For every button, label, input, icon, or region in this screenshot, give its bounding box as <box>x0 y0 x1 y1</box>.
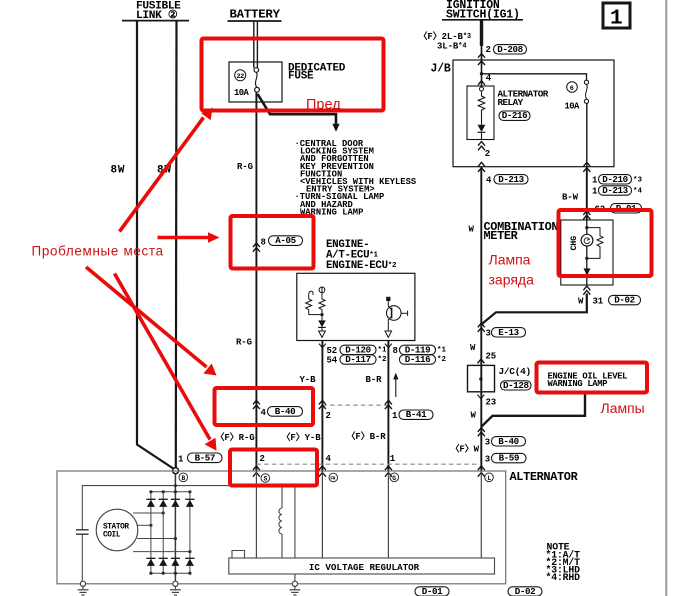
bridge top rail <box>149 490 191 493</box>
svg-text:WARNING LAMP: WARNING LAMP <box>548 379 608 389</box>
svg-text:10A: 10A <box>234 88 250 98</box>
svg-text:заряда: заряда <box>489 272 535 288</box>
dashed connector line lower row <box>256 463 481 465</box>
svg-text:STATOR: STATOR <box>103 524 129 532</box>
wire ignition stub <box>480 20 483 60</box>
diode D8 <box>185 558 194 566</box>
node B-57 junction <box>173 468 179 474</box>
svg-text:B-40: B-40 <box>498 436 518 447</box>
label alternator relay <box>498 89 549 122</box>
label 8 (A-05) <box>261 235 303 247</box>
svg-text:Проблемные места: Проблемные места <box>32 244 164 259</box>
svg-text:31: 31 <box>593 297 604 307</box>
terminal FR <box>329 473 338 482</box>
svg-text:*3: *3 <box>633 177 643 185</box>
J/B box <box>453 60 614 167</box>
connector chevrons B-R pin1 <box>385 400 392 409</box>
wire L internal <box>480 471 482 558</box>
red annotation box CHG <box>559 210 652 276</box>
svg-text:COIL: COIL <box>103 531 121 539</box>
label 4 (D-213) <box>486 174 528 186</box>
svg-text:*2: *2 <box>378 356 388 364</box>
svg-text:*1: *1 <box>378 347 388 355</box>
red annotation box B-40 <box>215 388 314 425</box>
svg-text:G: G <box>392 475 396 482</box>
fusible link label <box>122 1 189 23</box>
label dedicated fuse <box>288 63 346 83</box>
wire fuse6 down <box>586 103 588 166</box>
connector chevron J/C in <box>478 359 485 363</box>
stator coil circle <box>96 509 138 551</box>
alternator relay box <box>467 86 494 140</box>
wire B main vertical <box>174 474 176 582</box>
svg-text:10A: 10A <box>565 102 581 112</box>
svg-text:4: 4 <box>261 408 267 418</box>
ignition switch label <box>442 0 523 22</box>
red annotation box fuse <box>202 39 384 111</box>
svg-text:Лампы: Лампы <box>601 400 645 416</box>
wire fusible link right (8W) <box>175 21 178 468</box>
connector chevrons meter in <box>583 211 590 220</box>
svg-text:〈F〉B-R: 〈F〉B-R <box>347 431 387 442</box>
red arrow to pin2 <box>115 274 217 451</box>
svg-text:Пред: Пред <box>306 97 341 113</box>
svg-text:〈F〉Y-B: 〈F〉Y-B <box>282 432 322 443</box>
wire inside meter <box>586 220 588 268</box>
label (D-01) bottom <box>415 586 449 596</box>
svg-text:3L-B*4: 3L-B*4 <box>437 42 466 52</box>
svg-text:1: 1 <box>610 8 623 31</box>
svg-text:B-59: B-59 <box>499 453 519 464</box>
fuse 6 element <box>584 80 588 103</box>
relay diode <box>478 113 486 140</box>
svg-text:1: 1 <box>392 411 398 421</box>
ECU transistor Q <box>385 297 408 338</box>
ground capacitor <box>78 581 89 595</box>
svg-text:CHG: CHG <box>569 236 579 251</box>
svg-text:ENGINE-ECU*2: ENGINE-ECU*2 <box>326 260 397 272</box>
svg-text:W: W <box>470 343 476 353</box>
svg-text:R-G: R-G <box>237 162 253 172</box>
svg-text:B-W: B-W <box>562 193 579 203</box>
fuse 22 circle <box>235 70 246 81</box>
svg-text:*1: *1 <box>437 347 447 355</box>
field coil rotor <box>279 486 282 558</box>
IC voltage regulator box <box>229 551 495 575</box>
label (F)2L-B*3 3L-B*4 <box>419 31 472 52</box>
direction triangle on lamp wire <box>584 268 591 275</box>
svg-text:RELAY: RELAY <box>498 97 524 108</box>
wire JB to relay <box>481 60 483 87</box>
svg-text:FUSE: FUSE <box>288 71 314 83</box>
wire regulator to ground <box>294 574 296 581</box>
wire battery feed double line <box>254 21 258 68</box>
svg-text:*2: *2 <box>437 356 447 364</box>
svg-text:3: 3 <box>485 455 490 465</box>
diode D6 <box>159 558 168 566</box>
svg-text:8: 8 <box>393 346 398 356</box>
charge lamp <box>581 234 593 246</box>
svg-text:D-116: D-116 <box>405 354 431 365</box>
svg-text:23: 23 <box>486 398 497 408</box>
svg-text:J/C(4): J/C(4) <box>499 366 531 377</box>
connector female Y at ECU 8 <box>385 344 392 348</box>
svg-text:ALTERNATOR: ALTERNATOR <box>510 470 579 484</box>
wire R-G battery to alternator S <box>255 92 257 471</box>
svg-text:W: W <box>471 411 477 421</box>
wire FR internal <box>321 471 323 558</box>
wire note arrow elbow <box>258 94 340 132</box>
connector D-208 chevrons <box>478 54 485 66</box>
svg-text:6: 6 <box>570 85 574 93</box>
bridge bottom rail <box>149 572 191 575</box>
connector chevrons relay out <box>478 142 485 151</box>
label (D-02) bottom <box>508 586 542 596</box>
svg-text:IC VOLTAGE REGULATOR: IC VOLTAGE REGULATOR <box>309 562 420 573</box>
diode D2 <box>159 499 168 507</box>
diode D7 <box>171 558 180 566</box>
junction connector J/C(4) box <box>468 365 495 391</box>
svg-text:22: 22 <box>237 73 245 81</box>
stator tap wires <box>133 511 191 553</box>
svg-text:D-210: D-210 <box>602 174 628 185</box>
label combination meter <box>484 220 559 243</box>
svg-text:D-02: D-02 <box>614 295 634 306</box>
svg-text:B-40: B-40 <box>275 406 295 417</box>
svg-text:S: S <box>264 476 268 483</box>
svg-text:A-05: A-05 <box>275 235 296 246</box>
wire G internal <box>387 471 389 558</box>
wire B-W to meter <box>586 167 588 220</box>
terminal L <box>485 473 494 482</box>
svg-text:4: 4 <box>486 176 492 186</box>
svg-text:D-02: D-02 <box>515 586 535 596</box>
label J/C(4) (D-128) <box>499 366 532 391</box>
dashed connector line B-41 <box>322 404 388 406</box>
svg-text:D-117: D-117 <box>345 354 371 365</box>
label 3 (B-59) <box>485 453 526 465</box>
svg-text:3: 3 <box>485 438 490 448</box>
capacitor C <box>76 530 89 581</box>
node meter top <box>585 226 588 229</box>
svg-text:J/B: J/B <box>431 63 451 76</box>
ground regulator <box>289 581 300 595</box>
battery label <box>228 8 282 22</box>
wire meter out <box>586 276 588 285</box>
svg-text:D-216: D-216 <box>502 110 528 121</box>
terminal B <box>179 473 188 482</box>
svg-text:METER: METER <box>484 229 519 243</box>
fuse 6 circle <box>567 82 578 93</box>
note block <box>546 542 581 584</box>
svg-text:W: W <box>578 297 584 307</box>
red arrow to fuse <box>120 108 213 232</box>
ECU labels <box>326 239 397 272</box>
label 1 (D-210)*3 <box>592 174 643 186</box>
svg-text:2: 2 <box>260 454 265 464</box>
svg-text:2: 2 <box>486 45 491 55</box>
label 3 (B-40) <box>485 436 526 448</box>
meter shunt resistor <box>587 228 603 259</box>
ECU resistor pair <box>306 287 325 317</box>
svg-text:BATTERY: BATTERY <box>230 8 281 22</box>
svg-text:1: 1 <box>178 455 184 465</box>
wire W main (D-213 to alternator L) <box>480 167 482 471</box>
wire branch to fuse 6 <box>482 74 587 81</box>
svg-text:8: 8 <box>261 238 266 248</box>
svg-text:8W: 8W <box>111 165 126 177</box>
svg-text:D-213: D-213 <box>602 185 628 196</box>
wire engine oil lamp tap <box>481 393 585 427</box>
connector female Y at ECU 52 <box>319 344 326 348</box>
relay coil resistor <box>478 87 484 113</box>
alternator box <box>57 471 506 584</box>
node rail x coil <box>281 484 284 487</box>
ECU zener diode <box>318 315 326 338</box>
node meter bottom <box>585 257 588 260</box>
connector female Y J/C out <box>478 395 485 399</box>
svg-text:3: 3 <box>486 329 491 339</box>
connector chevrons JB bottom right <box>583 162 590 172</box>
wire B-R ECU to alternator G <box>387 341 389 472</box>
ECU box <box>297 273 415 340</box>
connector chevrons G wire <box>385 466 392 477</box>
label 1 (D-213)*4 <box>592 185 643 197</box>
connector B-40 chevrons on R-G <box>253 400 260 409</box>
svg-text:〈F〉W: 〈F〉W <box>451 444 480 455</box>
note text block <box>295 139 417 217</box>
label 31 (D-02) <box>593 295 641 307</box>
connector chevrons Y-B pin2 <box>319 400 326 409</box>
svg-text:〈F〉R-G: 〈F〉R-G <box>216 432 255 443</box>
red annotation box A-05 <box>231 216 314 269</box>
red arrow to A-05 <box>158 232 220 242</box>
red annotation box pin2 <box>230 450 317 486</box>
wire inner rail to capacitor <box>82 486 295 530</box>
svg-text:Лампа: Лампа <box>489 252 531 268</box>
svg-text:D-213: D-213 <box>498 174 524 185</box>
label 3 (E-13) <box>486 327 526 339</box>
svg-text:25: 25 <box>486 352 497 362</box>
svg-text:Y-B: Y-B <box>300 375 317 385</box>
svg-text:FR: FR <box>330 476 335 482</box>
label 2 (D-208) <box>486 44 527 55</box>
svg-text:2: 2 <box>485 149 490 159</box>
wire S internal <box>255 471 257 558</box>
svg-text:D-208: D-208 <box>497 44 523 55</box>
svg-text:E-13: E-13 <box>498 327 519 338</box>
direction arrow up on B-R <box>393 373 398 397</box>
svg-text:B-41: B-41 <box>406 409 427 420</box>
wire rail to regulator <box>294 486 296 558</box>
fuse element 10A <box>254 68 259 93</box>
svg-text:1: 1 <box>390 454 396 464</box>
diode D4 <box>185 499 194 507</box>
rectifier bridge columns <box>151 492 190 573</box>
diode D5 <box>146 558 155 566</box>
combination meter box <box>561 220 613 285</box>
svg-text:*4: *4 <box>633 188 643 196</box>
svg-text:R-G: R-G <box>236 338 252 348</box>
svg-text:4: 4 <box>326 454 332 464</box>
connector A-05 chevrons <box>253 243 260 252</box>
connector chevrons B-40 on W <box>478 428 485 437</box>
node rail x B <box>174 484 177 487</box>
svg-text:D-01: D-01 <box>422 586 443 596</box>
svg-text:54: 54 <box>327 356 338 366</box>
connector E-13 chevrons <box>478 323 485 332</box>
diode D1 <box>146 499 155 507</box>
red label Lampa zaryada <box>489 252 535 288</box>
svg-text:〈F〉2L-B*3: 〈F〉2L-B*3 <box>419 31 472 42</box>
labels 52 D-120 / 54 D-117 <box>327 344 388 365</box>
svg-text:W: W <box>469 225 475 235</box>
svg-text:*4:RHD: *4:RHD <box>546 572 581 583</box>
svg-text:52: 52 <box>327 346 338 356</box>
svg-text:1: 1 <box>592 176 598 186</box>
red arrow to B-40 <box>86 267 217 376</box>
terminal S <box>261 474 270 483</box>
svg-text:B-R: B-R <box>366 375 383 385</box>
dedicated fuse box <box>229 62 282 102</box>
red annotation box oil lamp <box>537 363 648 393</box>
scrollbar grey line <box>665 0 667 596</box>
terminal G <box>390 473 399 482</box>
label 4 (B-40) <box>261 406 303 418</box>
svg-text:B-57: B-57 <box>195 452 215 463</box>
svg-text:L: L <box>488 475 492 482</box>
labels 8 D-119 / D-116 <box>393 344 447 365</box>
ground bridge <box>170 581 181 595</box>
wire meter out jog to W main <box>481 294 587 325</box>
svg-text:4: 4 <box>486 74 492 84</box>
connector chevrons meter out <box>583 286 590 295</box>
svg-text:1: 1 <box>592 187 598 197</box>
svg-text:2: 2 <box>326 411 331 421</box>
wire fusible link left (8W) <box>137 21 176 470</box>
diode D3 <box>171 499 180 507</box>
label 62 (D-01) <box>595 203 642 215</box>
page number box <box>603 3 630 31</box>
connector chevrons L wire <box>478 466 485 477</box>
connector chevrons S wire <box>253 466 260 477</box>
label 1 (B-57) <box>178 452 222 464</box>
svg-text:B: B <box>182 475 186 482</box>
connector chevrons FR wire <box>319 466 326 477</box>
node jb branch <box>480 72 483 75</box>
wire Y-B ECU to alternator FR <box>321 341 323 472</box>
connector chevron relay in <box>478 81 485 85</box>
svg-text:D-128: D-128 <box>503 380 529 391</box>
connector chevrons JB bottom left <box>478 162 485 172</box>
label 1 (B-41) <box>392 409 433 421</box>
